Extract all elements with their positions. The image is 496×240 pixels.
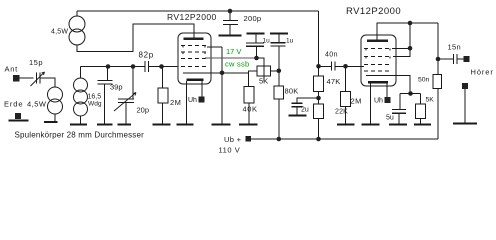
svg-text:Erde: Erde [4, 100, 23, 109]
node anode V2 [408, 21, 413, 26]
wire g2 V1 to wiper [205, 57, 257, 59]
wire heater leg to Uh [201, 81, 203, 97]
wire trimmer to coil L1 [40, 78, 55, 87]
label 110V [219, 146, 241, 155]
ground for 200p [219, 35, 242, 37]
svg-text:1u: 1u [286, 38, 294, 45]
svg-text:15n: 15n [448, 43, 461, 52]
svg-text:20p: 20p [137, 106, 150, 115]
node 22K rail [316, 137, 321, 142]
resistor 40K [244, 73, 254, 125]
wire antenna to trimmer [20, 77, 34, 79]
wire rail down to node A [318, 11, 320, 66]
potentiometer 5K [257, 66, 271, 76]
ground for 2u [289, 115, 307, 117]
node 80K rail [277, 137, 282, 142]
wire cathode row to divider [222, 71, 257, 73]
ground for 1u b [270, 33, 288, 35]
wire coil L2 bottom to anode [77, 24, 194, 52]
node cathode V2 [408, 91, 413, 96]
ground for 5K cathode [414, 124, 431, 126]
svg-text:4,5W: 4,5W [27, 100, 47, 109]
label coil L3 value [88, 94, 102, 108]
terminal Uh V2 [385, 97, 391, 103]
wire 40n to g1 V2 [346, 65, 365, 67]
wire heater V2 leg to Uh [386, 84, 388, 98]
ground for heater V2 [362, 124, 380, 126]
label Hoerer [471, 68, 494, 77]
svg-text:2u: 2u [301, 107, 309, 114]
svg-text:Ub +: Ub + [224, 135, 242, 144]
ground for 1u a [247, 33, 265, 35]
node A anode load [316, 64, 321, 69]
terminal phones b [462, 83, 468, 89]
svg-text:80K: 80K [285, 87, 299, 96]
ground for Erde [9, 120, 29, 122]
capacitor 5u cathode bypass [392, 94, 406, 125]
wire g3 V2 [392, 47, 410, 49]
svg-text:47K: 47K [327, 77, 341, 86]
label 5u [386, 115, 394, 122]
label 80K [285, 87, 299, 96]
terminal Ant [13, 75, 20, 82]
wire coil L1 to ground [54, 114, 56, 122]
terminal Uh V1 [199, 97, 205, 103]
node g2 wiper [254, 56, 259, 61]
ground for 5u [389, 124, 407, 126]
resistor 5K cathode [416, 94, 426, 125]
label 2M [170, 98, 181, 107]
capacitor 200p [223, 11, 238, 36]
label 22K [335, 109, 348, 116]
svg-text:Spulenkörper 28 mm Durchmesser: Spulenkörper 28 mm Durchmesser [15, 131, 145, 140]
label 40K [243, 105, 258, 114]
coil L2 feedback 4,5 Wdg [69, 16, 85, 45]
wire cathode V1 to ground [221, 47, 223, 125]
svg-text:16,5: 16,5 [88, 94, 102, 101]
svg-text:200p: 200p [244, 14, 262, 23]
svg-text:5K: 5K [259, 77, 268, 86]
resistor 50n output load [433, 23, 442, 139]
svg-text:82p: 82p [139, 51, 154, 60]
label 82p [139, 51, 154, 60]
label tube V2 [346, 6, 401, 17]
svg-text:1u: 1u [263, 38, 271, 45]
label 1u b [286, 38, 294, 45]
svg-text:4,5W: 4,5W [51, 29, 68, 36]
wire coil L2 top to rail [76, 11, 78, 16]
capacitor 1u g2 bypass [246, 34, 264, 59]
svg-text:Wdg: Wdg [88, 101, 102, 108]
node grid leak [159, 64, 164, 69]
coil L1 antenna 4,5 Wdg [48, 87, 63, 114]
svg-text:5K: 5K [426, 97, 435, 104]
resistor 80K [274, 71, 284, 139]
svg-text:Uh: Uh [188, 97, 197, 104]
tube V2 RV12P2000 [361, 35, 396, 86]
svg-text:2M: 2M [351, 97, 362, 106]
svg-text:RV12P2000: RV12P2000 [167, 12, 217, 22]
capacitor 39p [98, 67, 113, 125]
svg-text:2M: 2M [170, 98, 181, 107]
node 80K top [277, 69, 282, 74]
capacitor 40n coupling [319, 62, 346, 71]
svg-text:Hörer: Hörer [471, 68, 494, 77]
wire wiper [257, 58, 265, 82]
label 17V [226, 47, 241, 56]
label coil L1 value [27, 100, 47, 109]
label cw ssb [225, 60, 249, 69]
wire cathode network [400, 93, 421, 95]
wire grid line tank [81, 66, 146, 68]
label Uh V2 [374, 98, 383, 105]
svg-text:RV12P2000: RV12P2000 [346, 6, 401, 17]
label 1u a [263, 38, 271, 45]
svg-text:15p: 15p [29, 58, 43, 67]
capacitor 15n phones [438, 54, 464, 64]
ground for phones [453, 123, 477, 125]
label Ant [5, 65, 19, 74]
svg-text:40n: 40n [325, 52, 338, 59]
capacitor 82p [145, 61, 149, 72]
node B decoupling [316, 96, 321, 101]
terminal Erde [15, 113, 21, 119]
svg-text:5u: 5u [386, 115, 394, 122]
ground for coil L1 [44, 121, 58, 123]
svg-text:Uh: Uh [374, 98, 383, 105]
svg-text:40K: 40K [243, 105, 258, 114]
trimmer capacitor 15p [31, 72, 45, 86]
tube V1 RV12P2000 [178, 33, 222, 84]
capacitor 1u b [271, 34, 286, 71]
terminal Ub [246, 136, 252, 142]
label 39p [110, 83, 123, 92]
label 5K cathode [426, 97, 435, 104]
label 15n [448, 43, 461, 52]
svg-text:Ant: Ant [5, 65, 19, 74]
label 15p [29, 58, 43, 67]
svg-text:22K: 22K [335, 109, 348, 116]
wire phones b to ground [464, 89, 466, 124]
label Ub [224, 135, 242, 144]
wire anode rail top [77, 10, 319, 12]
node rail/200p [228, 9, 233, 14]
coil L3 grid 16,5 Wdg [74, 78, 88, 116]
terminal phones a [464, 56, 470, 62]
ground for cathode V1 [212, 124, 231, 126]
node g1 V2 [343, 64, 348, 69]
label caption [15, 131, 145, 140]
resistor 22K dropper [314, 98, 324, 139]
ground for 39p [97, 124, 113, 126]
wire heater V2 leg to ground [370, 84, 372, 125]
wire rail Ub 110V [251, 138, 438, 140]
ground for 40K [239, 124, 258, 126]
wire coil L3 top [80, 67, 82, 79]
ground for heater V1 [177, 124, 194, 126]
wire cathode V2 down [396, 75, 410, 93]
node cathode V1 [220, 71, 225, 76]
node g3 V2 [408, 46, 413, 51]
label 40n [325, 52, 338, 59]
trimmer capacitor 20p [114, 67, 136, 125]
svg-text:50n: 50n [418, 77, 430, 84]
resistor 2M grid leak V2 [341, 66, 351, 124]
label tube V1 [167, 12, 217, 22]
ground for coil L3 [70, 124, 87, 126]
ground for 2M [153, 124, 171, 126]
capacitor 2u decoupling [292, 98, 319, 116]
node phones tap [436, 57, 441, 62]
node 20p [131, 64, 136, 69]
wire 82p to grid V1 [149, 66, 179, 68]
wire anode V2 [377, 23, 438, 40]
resistor 47K anode load [314, 66, 324, 98]
svg-text:17 V: 17 V [226, 47, 241, 56]
label 50n [418, 77, 430, 84]
label 2M V2 [351, 97, 362, 106]
label 5K [259, 77, 268, 86]
wire coil L3 to ground [80, 116, 82, 125]
label 47K [327, 77, 341, 86]
wire g3 V1 [207, 46, 222, 48]
wire g3 g2 strap V2 [393, 23, 410, 57]
label Uh V1 [188, 97, 197, 104]
svg-text:cw ssb: cw ssb [225, 60, 249, 69]
svg-text:39p: 39p [110, 83, 123, 92]
ground for 2M V2 [337, 124, 355, 126]
label 200p [244, 14, 262, 23]
label 2u [301, 107, 309, 114]
wire heater leg to ground [186, 81, 188, 125]
svg-text:110 V: 110 V [219, 146, 241, 155]
label 20p [137, 106, 150, 115]
resistor 2M grid leak V1 [158, 67, 168, 125]
label Erde [4, 100, 23, 109]
node 39p [106, 64, 111, 69]
label coil L2 value [51, 29, 68, 36]
wire pot to 80K node [271, 70, 279, 72]
ground for 20p [118, 124, 132, 126]
